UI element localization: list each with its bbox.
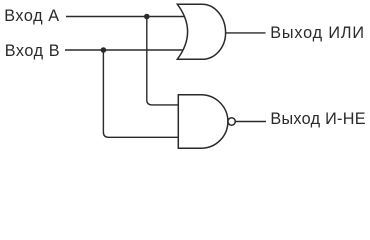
svg-text:Вход A: Вход A	[4, 7, 60, 25]
wire OR output	[226, 32, 266, 34]
NAND inversion bubble	[228, 118, 235, 125]
wire branch B to NAND bottom input	[103, 50, 178, 137]
svg-text:Вход B: Вход B	[5, 42, 61, 60]
junction dot on input B	[101, 47, 107, 53]
wire branch A to NAND top input	[147, 17, 179, 105]
junction dot on input A	[144, 14, 150, 20]
NAND gate	[178, 95, 228, 149]
wire NAND output	[235, 121, 266, 123]
wire input A	[66, 16, 185, 18]
wire input B	[65, 49, 185, 51]
OR gate	[177, 4, 225, 59]
svg-text:Выход И-НЕ: Выход И-НЕ	[270, 110, 365, 128]
svg-text:Выход ИЛИ: Выход ИЛИ	[270, 24, 365, 42]
